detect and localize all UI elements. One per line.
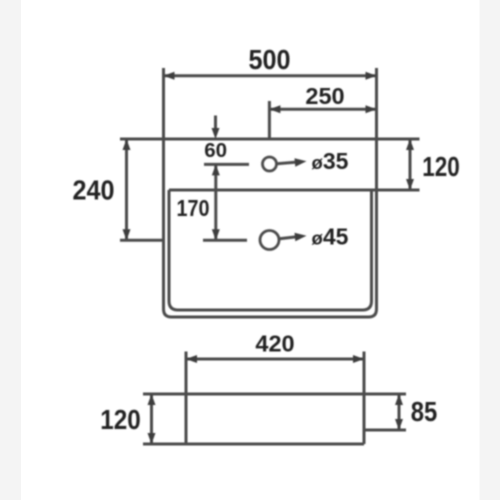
label d35 (312, 148, 349, 174)
label 500 (249, 44, 291, 75)
d35 leader arrow (277, 158, 307, 166)
dim 85 line (395, 394, 403, 430)
svg-text:120: 120 (100, 404, 141, 435)
dim 250 extension line (268, 101, 271, 139)
drain hole circle d45 (260, 231, 279, 250)
label 240 (73, 175, 115, 206)
dim 250 line (269, 105, 376, 113)
dim 240 line (123, 139, 131, 240)
dim 60 top arrow (212, 116, 220, 140)
dim 420 line (186, 355, 364, 363)
label 120 right (422, 151, 460, 182)
svg-text:ø45: ø45 (312, 224, 349, 250)
basin outer outline (sides + rounded bottom) (164, 68, 377, 317)
label 60 (204, 139, 227, 162)
side view left edge (185, 352, 188, 445)
svg-text:ø35: ø35 (312, 148, 349, 174)
side view right edge (363, 352, 366, 445)
side view bottom line (143, 443, 364, 446)
svg-text:420: 420 (255, 331, 294, 357)
label d45 (312, 224, 349, 250)
svg-text:240: 240 (73, 175, 115, 206)
svg-text:85: 85 (411, 396, 438, 427)
svg-text:60: 60 (204, 139, 227, 162)
dim 120 right line (406, 139, 414, 190)
basin top edge line (with left and right extension) (120, 138, 420, 141)
left gray sidebar (0, 0, 21, 500)
label 170 (177, 195, 210, 221)
basin inner bowl outline (169, 190, 372, 310)
basin deck / bowl top line (with right extension) (169, 189, 420, 192)
dim 120 left line (148, 394, 156, 444)
dim 170 line (212, 164, 220, 240)
dim 500 line (164, 72, 377, 80)
svg-text:170: 170 (177, 195, 210, 221)
d45 leader arrow (280, 233, 307, 241)
label 420 (255, 331, 294, 357)
label 250 (305, 83, 344, 109)
dim 240 bottom extension line (120, 239, 162, 242)
svg-text:250: 250 (305, 83, 344, 109)
side view right mid extension line (364, 429, 406, 432)
faucet hole circle d35 (263, 157, 277, 171)
side view top line (143, 393, 406, 396)
faucet hole center tick line (204, 163, 249, 166)
svg-text:500: 500 (249, 44, 291, 75)
svg-text:120: 120 (422, 151, 460, 182)
label 120 left (100, 404, 141, 435)
label 85 (411, 396, 438, 427)
drain hole center tick line (203, 239, 247, 242)
right gray sidebar (480, 0, 500, 500)
